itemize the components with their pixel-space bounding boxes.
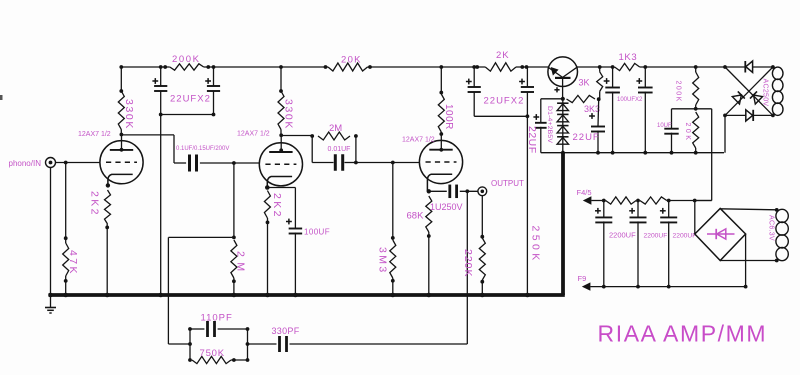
transformer coil AC6.3V — [768, 209, 789, 260]
svg-text:200K: 200K — [675, 81, 682, 103]
wire input ground drop — [50, 168, 52, 295]
svg-text:0.1UF/0.15UF/200V: 0.1UF/0.15UF/200V — [176, 146, 229, 152]
rectifier bridge heater diamond — [695, 201, 746, 287]
svg-text:2M: 2M — [235, 251, 247, 277]
svg-text:12AX7 1/2: 12AX7 1/2 — [237, 131, 270, 138]
svg-text:200K: 200K — [172, 54, 201, 65]
transformer coil AC250V — [762, 67, 784, 115]
svg-text:1U250V: 1U250V — [430, 202, 463, 212]
terminal F4/5 — [577, 188, 606, 205]
resistor 2K (B+ rail) — [475, 50, 524, 71]
resistor 2M (RIAA interstage) — [310, 123, 357, 140]
wire V3 plate bar dot — [439, 148, 443, 152]
svg-text:AC250V: AC250V — [762, 79, 769, 107]
wire feedback entry — [168, 343, 190, 345]
connector OUTPUT — [478, 179, 524, 196]
resistor 2K2 (V2 cathode) — [264, 191, 283, 295]
wire coupling cap to V2 grid — [200, 161, 260, 165]
diode HV diagonal A — [732, 91, 745, 104]
svg-text:2200UF: 2200UF — [609, 231, 636, 240]
svg-text:3K3: 3K3 — [584, 104, 600, 114]
terminal F9 — [578, 274, 748, 291]
resistor heater filter R-a — [606, 197, 637, 204]
capacitor 22UF (base left) — [526, 99, 563, 154]
resistor 200K (heater elevation divider) — [675, 65, 699, 111]
svg-text:2K: 2K — [496, 50, 510, 61]
svg-text:12AX7 1/2: 12AX7 1/2 — [402, 137, 435, 144]
wire V2 grid-leak drop — [233, 163, 235, 237]
wire divider tap to heater rail — [695, 109, 712, 201]
svg-text:2200UF: 2200UF — [644, 233, 668, 240]
svg-text:250K: 250K — [530, 226, 542, 264]
resistor heater filter R-b — [640, 197, 667, 204]
ground symbol — [45, 297, 56, 314]
resistor 3M3 (V3 grid leak) — [377, 163, 396, 295]
capacitor 22UFX2 left pair — [152, 65, 220, 116]
svg-text:750K: 750K — [200, 348, 225, 359]
wire feedback arm to grid node — [168, 237, 234, 344]
wire V2 plate lead — [279, 133, 283, 152]
wire heater top rail — [602, 199, 712, 203]
resistor 200K (top left, plate decoupling) — [163, 54, 210, 70]
resistor 1K3 (B+ filter) — [615, 52, 640, 71]
diode HV diagonal B — [750, 91, 763, 104]
svg-text:20K: 20K — [341, 55, 362, 66]
resistor 20K (B+ rail) — [324, 55, 372, 72]
wire bridge to heater coil — [720, 208, 778, 262]
svg-text:AC6.3V: AC6.3V — [768, 215, 775, 241]
svg-text:2M: 2M — [329, 123, 342, 134]
svg-text:3K: 3K — [579, 78, 590, 88]
svg-text:2K2: 2K2 — [89, 191, 101, 217]
wire V1 plate lead — [120, 133, 124, 152]
resistor 330K (V2 plate load) — [278, 65, 295, 135]
resistor 3K (bias divider upper) — [579, 65, 603, 99]
svg-text:330PF: 330PF — [272, 326, 300, 336]
svg-text:330K: 330K — [123, 99, 135, 130]
cathode V1 hook — [106, 174, 133, 187]
wire input to V1 grid — [56, 161, 100, 165]
svg-text:22UF: 22UF — [573, 132, 600, 143]
diode HV top — [745, 61, 752, 73]
node ground bus junctions — [48, 293, 530, 298]
svg-text:22UF: 22UF — [526, 126, 538, 154]
resistor 20K (heater elevation divider lower) — [684, 112, 699, 153]
svg-text:20K: 20K — [684, 123, 691, 143]
capacitor 1U250V output coupling — [429, 185, 478, 212]
svg-text:3M3: 3M3 — [377, 247, 389, 275]
svg-text:330K: 330K — [283, 99, 295, 130]
cathode V2 hook — [265, 177, 292, 190]
node feedback box right — [246, 327, 250, 362]
capacitor 0.01UF (RIAA interstage) — [312, 136, 358, 171]
capacitor 0.1UF/0.15UF/200V coupling — [176, 146, 229, 172]
svg-text:22UFX2: 22UFX2 — [484, 96, 525, 107]
triode V1 12AX7 1/2 — [78, 131, 143, 184]
wire V1 plate to coupling cap — [122, 135, 187, 163]
svg-text:10UF: 10UF — [657, 123, 672, 129]
svg-text:OUTPUT: OUTPUT — [491, 179, 524, 188]
svg-text:0.01UF: 0.01UF — [328, 146, 351, 153]
wire 22UFX2 ground return — [160, 115, 162, 295]
svg-text:47K: 47K — [67, 250, 79, 276]
wire thick ground bus — [49, 293, 565, 297]
resistor 220K (output load) — [462, 196, 485, 294]
capacitor 100UF (V2 cathode bypass) — [267, 188, 330, 295]
resistor 3K3 (bias divider) — [567, 95, 601, 114]
svg-text:22UFX2: 22UFX2 — [170, 94, 211, 105]
resistor 2M (V2 grid leak) — [231, 236, 247, 295]
connector phono/IN — [9, 158, 56, 169]
svg-text:100R: 100R — [443, 104, 454, 130]
svg-text:2200UF: 2200UF — [673, 233, 697, 240]
wire B+ rail segments y=67 — [121, 66, 725, 68]
wire supply return line y=152.7 — [541, 151, 724, 155]
resistor 2K2 (V1 cathode) — [89, 190, 111, 294]
diode heater bridge symbol — [707, 229, 735, 239]
svg-text:phono/IN: phono/IN — [9, 159, 42, 168]
triode V2 12AX7 1/2 — [237, 131, 303, 186]
label title RIAA AMP/MM — [598, 321, 768, 347]
capacitor 2200UF #3 — [660, 201, 696, 287]
diode string D1-4 (bias) — [546, 99, 569, 153]
svg-text:D1-4+2B5V: D1-4+2B5V — [546, 106, 553, 143]
node Q1 base — [561, 97, 565, 101]
svg-text:RIAA AMP/MM: RIAA AMP/MM — [598, 321, 768, 347]
capacitor 2200UF #1 — [595, 201, 636, 287]
svg-text:100UF: 100UF — [304, 228, 330, 237]
resistor 750K (feedback) — [192, 348, 248, 364]
svg-text:F9: F9 — [578, 274, 587, 283]
wire HV bridge negative drop — [724, 115, 726, 152]
wire V2 plate to RIAA network — [281, 135, 312, 137]
wire RIAA network to V3 grid — [356, 161, 420, 165]
capacitor 22UFX2 right pair — [466, 65, 534, 118]
rectifier bridge HV square — [723, 65, 775, 117]
wire 250K bleed line — [527, 116, 541, 294]
triode V3 12AX7 1/2 — [402, 137, 463, 184]
capacitor 10UF (divider bypass) — [657, 109, 696, 153]
capacitor 100UFX2 pair — [604, 65, 653, 153]
resistor 47K (input load) — [63, 163, 79, 295]
mark left edge artifact — [0, 95, 3, 100]
svg-text:220K: 220K — [462, 249, 474, 278]
svg-text:2K2: 2K2 — [271, 193, 283, 219]
svg-text:110PF: 110PF — [201, 313, 233, 324]
wire thick ground drop — [561, 153, 565, 295]
svg-text:12AX7 1/2: 12AX7 1/2 — [78, 131, 111, 138]
svg-text:68K: 68K — [407, 211, 425, 222]
transistor Q1 pass regulator — [548, 57, 578, 99]
resistor 100R (V3 plate) — [438, 65, 454, 150]
wire feedback tap drop — [466, 191, 468, 344]
capacitor 2200UF #2 — [629, 201, 667, 287]
capacitor 110PF (feedback) — [188, 313, 247, 362]
svg-text:1K3: 1K3 — [619, 52, 638, 63]
cathode V3 hook — [427, 174, 453, 193]
diode HV bottom — [746, 110, 753, 121]
capacitor 330PF (feedback) — [248, 326, 468, 352]
resistor 68K (V3 cathode) — [407, 196, 432, 294]
resistor 330K (V1 plate load) — [118, 65, 135, 134]
svg-text:F4/5: F4/5 — [577, 188, 592, 197]
svg-text:100UFX2: 100UFX2 — [617, 97, 643, 103]
capacitor 22UF (divider right) — [573, 99, 606, 153]
